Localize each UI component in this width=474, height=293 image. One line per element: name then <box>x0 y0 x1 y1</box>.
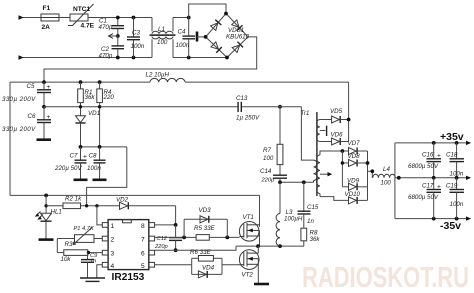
capacitor C7 <box>54 147 88 180</box>
Vcc rail above C7/C8 <box>79 145 127 149</box>
svg-text:470p: 470p <box>99 53 113 60</box>
wire aux bus right down to VD5/VD6 <box>348 82 350 141</box>
svg-text:Tr1: Tr1 <box>301 110 310 117</box>
input terminal bottom <box>19 55 153 59</box>
wire pin5 <box>155 264 192 266</box>
svg-text:220: 220 <box>103 94 115 101</box>
inductor L3 <box>276 182 303 246</box>
svg-text:VD3: VD3 <box>199 207 212 214</box>
capacitor C4 <box>176 18 196 58</box>
wire Vcc drop to R2 node <box>87 147 127 206</box>
wire Vcc horizontal W1 <box>10 194 260 198</box>
ground under VT2 <box>254 283 269 286</box>
capacitor C16 <box>408 143 441 180</box>
diode VD10 <box>345 191 368 204</box>
svg-text:C4: C4 <box>178 29 186 36</box>
svg-text:220µ 50V: 220µ 50V <box>54 165 82 172</box>
common-mode choke L1 <box>150 18 176 58</box>
svg-text:330µ 200V: 330µ 200V <box>2 96 36 103</box>
resistor R8 <box>301 228 320 246</box>
svg-text:L1: L1 <box>158 26 165 33</box>
svg-text:VD2: VD2 <box>116 197 129 204</box>
svg-text:6: 6 <box>141 251 145 258</box>
capacitor C12 <box>154 225 182 252</box>
svg-text:C17: C17 <box>422 183 434 190</box>
svg-text:VD5: VD5 <box>330 108 343 115</box>
svg-text:VD1: VD1 <box>88 110 100 117</box>
svg-text:+: + <box>437 153 441 160</box>
svg-text:-35v: -35v <box>440 220 461 232</box>
svg-text:100µH: 100µH <box>284 216 303 223</box>
inductor L4 <box>373 166 395 187</box>
svg-text:VD7: VD7 <box>348 140 361 147</box>
capacitor C5 <box>2 82 51 107</box>
svg-text:L2 10µH: L2 10µH <box>146 72 170 79</box>
svg-text:R6 33E: R6 33E <box>190 249 212 256</box>
wire primary bottom line <box>278 180 313 184</box>
svg-text:C8: C8 <box>89 153 97 160</box>
svg-text:100n: 100n <box>176 42 190 49</box>
-35v rail <box>395 216 471 232</box>
svg-text:5: 5 <box>141 263 145 270</box>
svg-text:C5: C5 <box>27 83 35 90</box>
wire C13 rail right segment <box>241 106 301 108</box>
svg-text:3: 3 <box>111 251 115 258</box>
capacitor C8 <box>87 147 107 180</box>
svg-text:VD4: VD4 <box>202 265 215 272</box>
svg-text:1n: 1n <box>307 218 314 225</box>
svg-text:36k: 36k <box>85 94 96 101</box>
svg-text:+35v: +35v <box>440 131 464 143</box>
wire VT2 gate <box>222 264 240 266</box>
svg-text:C7: C7 <box>70 153 78 160</box>
svg-text:100n: 100n <box>131 43 145 50</box>
svg-text:IR2153: IR2153 <box>112 272 145 283</box>
svg-text:VT2: VT2 <box>242 272 254 279</box>
svg-text:2A: 2A <box>42 24 51 31</box>
svg-text:4.7E: 4.7E <box>81 23 95 30</box>
svg-text:VD9: VD9 <box>347 178 360 185</box>
svg-text:VT1: VT1 <box>243 214 254 221</box>
svg-text:C15: C15 <box>307 204 319 211</box>
svg-text:1: 1 <box>111 223 115 230</box>
svg-text:R7: R7 <box>263 147 271 154</box>
svg-text:100n: 100n <box>87 165 101 172</box>
svg-text:10k: 10k <box>61 256 72 263</box>
capacitor C1 <box>99 18 125 37</box>
svg-text:220p: 220p <box>261 178 275 184</box>
common rail <box>395 176 471 180</box>
svg-text:+: + <box>47 114 51 121</box>
resistor R4 <box>97 82 115 147</box>
diode VD1 <box>76 110 101 147</box>
svg-text:R3: R3 <box>65 241 73 248</box>
capacitor C9 <box>81 253 98 278</box>
midpoint rail to C13 <box>44 106 238 108</box>
resistor R2 <box>46 196 119 209</box>
svg-text:6800µ 50V: 6800µ 50V <box>408 163 439 170</box>
svg-text:330µ 200V: 330µ 200V <box>2 126 36 133</box>
svg-text:6800µ 50V: 6800µ 50V <box>408 194 439 201</box>
wire pin1 feed <box>97 206 102 225</box>
svg-text:100: 100 <box>157 39 168 46</box>
svg-text:R5 33E: R5 33E <box>194 225 216 232</box>
diode VD2 <box>116 197 176 210</box>
thermistor NTC1 <box>68 4 95 30</box>
svg-text:+: + <box>437 184 441 191</box>
svg-text:+: + <box>47 84 51 91</box>
transistor VT2 <box>239 246 259 283</box>
bar electrode at bridge AC left <box>197 32 206 42</box>
diode VD3 parallel path <box>184 207 227 237</box>
capacitor C2 <box>99 36 125 60</box>
wire bridge DC+ to main rail <box>44 37 257 82</box>
transformer secondary winding <box>317 151 349 200</box>
svg-text:220p: 220p <box>154 244 168 250</box>
resistor R6 <box>190 249 222 274</box>
svg-text:100: 100 <box>263 155 274 162</box>
wire pin8 <box>155 223 178 227</box>
capacitor C15 <box>298 182 319 228</box>
diode VD7 <box>341 140 368 155</box>
diode VD8 <box>341 151 368 187</box>
wire <box>88 17 152 19</box>
wire pin7 gate line <box>155 236 197 240</box>
resistor R3 <box>57 241 102 263</box>
capacitor C6 <box>2 107 51 139</box>
diode VD6 <box>331 132 349 146</box>
node dots C1/C3 rails <box>116 16 120 20</box>
capacitor C17 <box>408 178 441 219</box>
svg-text:100n: 100n <box>450 201 464 208</box>
+35v rail <box>395 131 471 145</box>
bridge rectifier VDS1 KBU610 <box>204 12 250 60</box>
half-bridge midpoint wire <box>236 244 304 248</box>
IC IR2153 <box>102 220 154 283</box>
wire VD2 to pin8 <box>175 206 177 225</box>
wire top rail after L1 <box>173 17 189 19</box>
input terminal top <box>19 15 42 19</box>
node C1/C2 with earth arrow <box>109 34 120 39</box>
wire R2 node column <box>44 195 47 213</box>
ground bar under C6 <box>37 138 52 141</box>
svg-text:2: 2 <box>111 237 115 244</box>
resistor R7 <box>263 105 283 175</box>
resistor R5 <box>194 225 240 240</box>
svg-text:R2 1k: R2 1k <box>65 196 82 203</box>
capacitor C3 <box>127 18 145 58</box>
svg-text:KBU610: KBU610 <box>226 34 250 41</box>
fuse F1 <box>41 5 70 31</box>
transformer Tr1 primary winding <box>301 110 318 182</box>
wire primary top feed <box>301 107 313 160</box>
svg-text:4: 4 <box>111 263 115 270</box>
diode VD5 <box>330 108 351 123</box>
capacitor C18 <box>446 143 464 180</box>
wire drain drop to VT1 <box>259 195 261 226</box>
svg-text:F1: F1 <box>43 5 51 12</box>
wire left bus down <box>9 82 11 195</box>
svg-text:VD10: VD10 <box>345 191 361 198</box>
wire rectifier output join <box>366 151 375 200</box>
capacitor C14 <box>260 168 287 184</box>
svg-text:100n: 100n <box>450 171 464 178</box>
wire pin4 to ground <box>97 265 103 278</box>
transformer core <box>316 112 318 196</box>
svg-text:P1 4,7K: P1 4,7K <box>74 226 94 232</box>
output bus left vertical <box>394 143 396 219</box>
svg-text:C6: C6 <box>28 113 36 120</box>
wire bridge top feed <box>189 4 226 18</box>
svg-text:7: 7 <box>141 237 145 244</box>
svg-text:C18: C18 <box>446 152 458 159</box>
diode VD4 parallel path <box>192 265 222 278</box>
capacitor C13 <box>236 95 260 122</box>
node cap divider midpoint <box>42 105 46 109</box>
svg-text:C3: C3 <box>132 30 140 37</box>
capacitor C19 <box>446 178 464 219</box>
wire pin6 VS line <box>155 246 236 250</box>
wire bottom rail after L1 <box>173 57 227 59</box>
svg-text:8: 8 <box>141 223 145 230</box>
svg-text:VD6: VD6 <box>331 132 344 139</box>
svg-text:C16: C16 <box>422 152 434 159</box>
svg-text:NTC1: NTC1 <box>73 6 91 13</box>
transformer aux winding <box>317 120 332 142</box>
LED HL1 <box>35 209 62 240</box>
svg-text:C14: C14 <box>260 168 272 175</box>
svg-text:470p: 470p <box>99 24 113 31</box>
svg-text:VD8: VD8 <box>348 153 361 160</box>
svg-text:100: 100 <box>381 180 392 187</box>
svg-text:1n: 1n <box>90 258 96 264</box>
trimmer P1 <box>57 226 102 253</box>
svg-text:HL1: HL1 <box>51 209 62 216</box>
diode VD9 <box>342 178 367 191</box>
svg-text:36k: 36k <box>310 236 321 243</box>
svg-text:L4: L4 <box>383 166 390 173</box>
svg-text:C19: C19 <box>446 183 458 190</box>
transistor VT1 <box>239 214 259 246</box>
ground <box>80 278 105 281</box>
svg-text:+: + <box>83 154 87 161</box>
svg-text:C13: C13 <box>236 95 248 102</box>
svg-text:RADIOSKOT.RU: RADIOSKOT.RU <box>302 262 469 293</box>
svg-text:1µ 250V: 1µ 250V <box>236 115 260 122</box>
resistor R1 <box>78 82 96 116</box>
+310V rail with choke L2 <box>10 72 349 85</box>
